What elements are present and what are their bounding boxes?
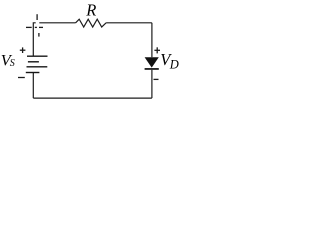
wire top to resistor	[39, 22, 75, 24]
battery minus sign	[18, 77, 25, 79]
wire bottom	[33, 97, 152, 99]
battery plate short bottom	[26, 72, 40, 74]
diode minus sign	[154, 78, 159, 80]
diode plus sign	[154, 49, 160, 51]
svg-text:R: R	[85, 0, 96, 19]
dash-dot marker horizontal dot	[35, 26, 37, 28]
dash-dot marker horizontal dash left	[26, 26, 32, 28]
battery plate long top	[27, 55, 48, 57]
dash-dot marker lower vertical dash	[38, 33, 40, 37]
diode cathode bar	[145, 68, 159, 70]
dash-dot marker horizontal dash right	[39, 26, 43, 28]
battery plate short	[28, 61, 39, 63]
diode D triangle	[145, 57, 159, 67]
battery plus sign	[20, 49, 26, 51]
wire right down to diode	[151, 23, 153, 57]
resistor R	[76, 19, 107, 27]
svg-text:D: D	[169, 57, 179, 71]
wire top-left segment	[33, 23, 35, 56]
battery plate long	[27, 66, 48, 68]
wire diode to bottom-right corner	[151, 70, 153, 98]
dash-dot marker vertical dash	[36, 14, 38, 20]
wire left bottom	[32, 73, 34, 99]
svg-text:S: S	[10, 58, 15, 69]
wire resistor to top-right corner	[106, 22, 152, 24]
